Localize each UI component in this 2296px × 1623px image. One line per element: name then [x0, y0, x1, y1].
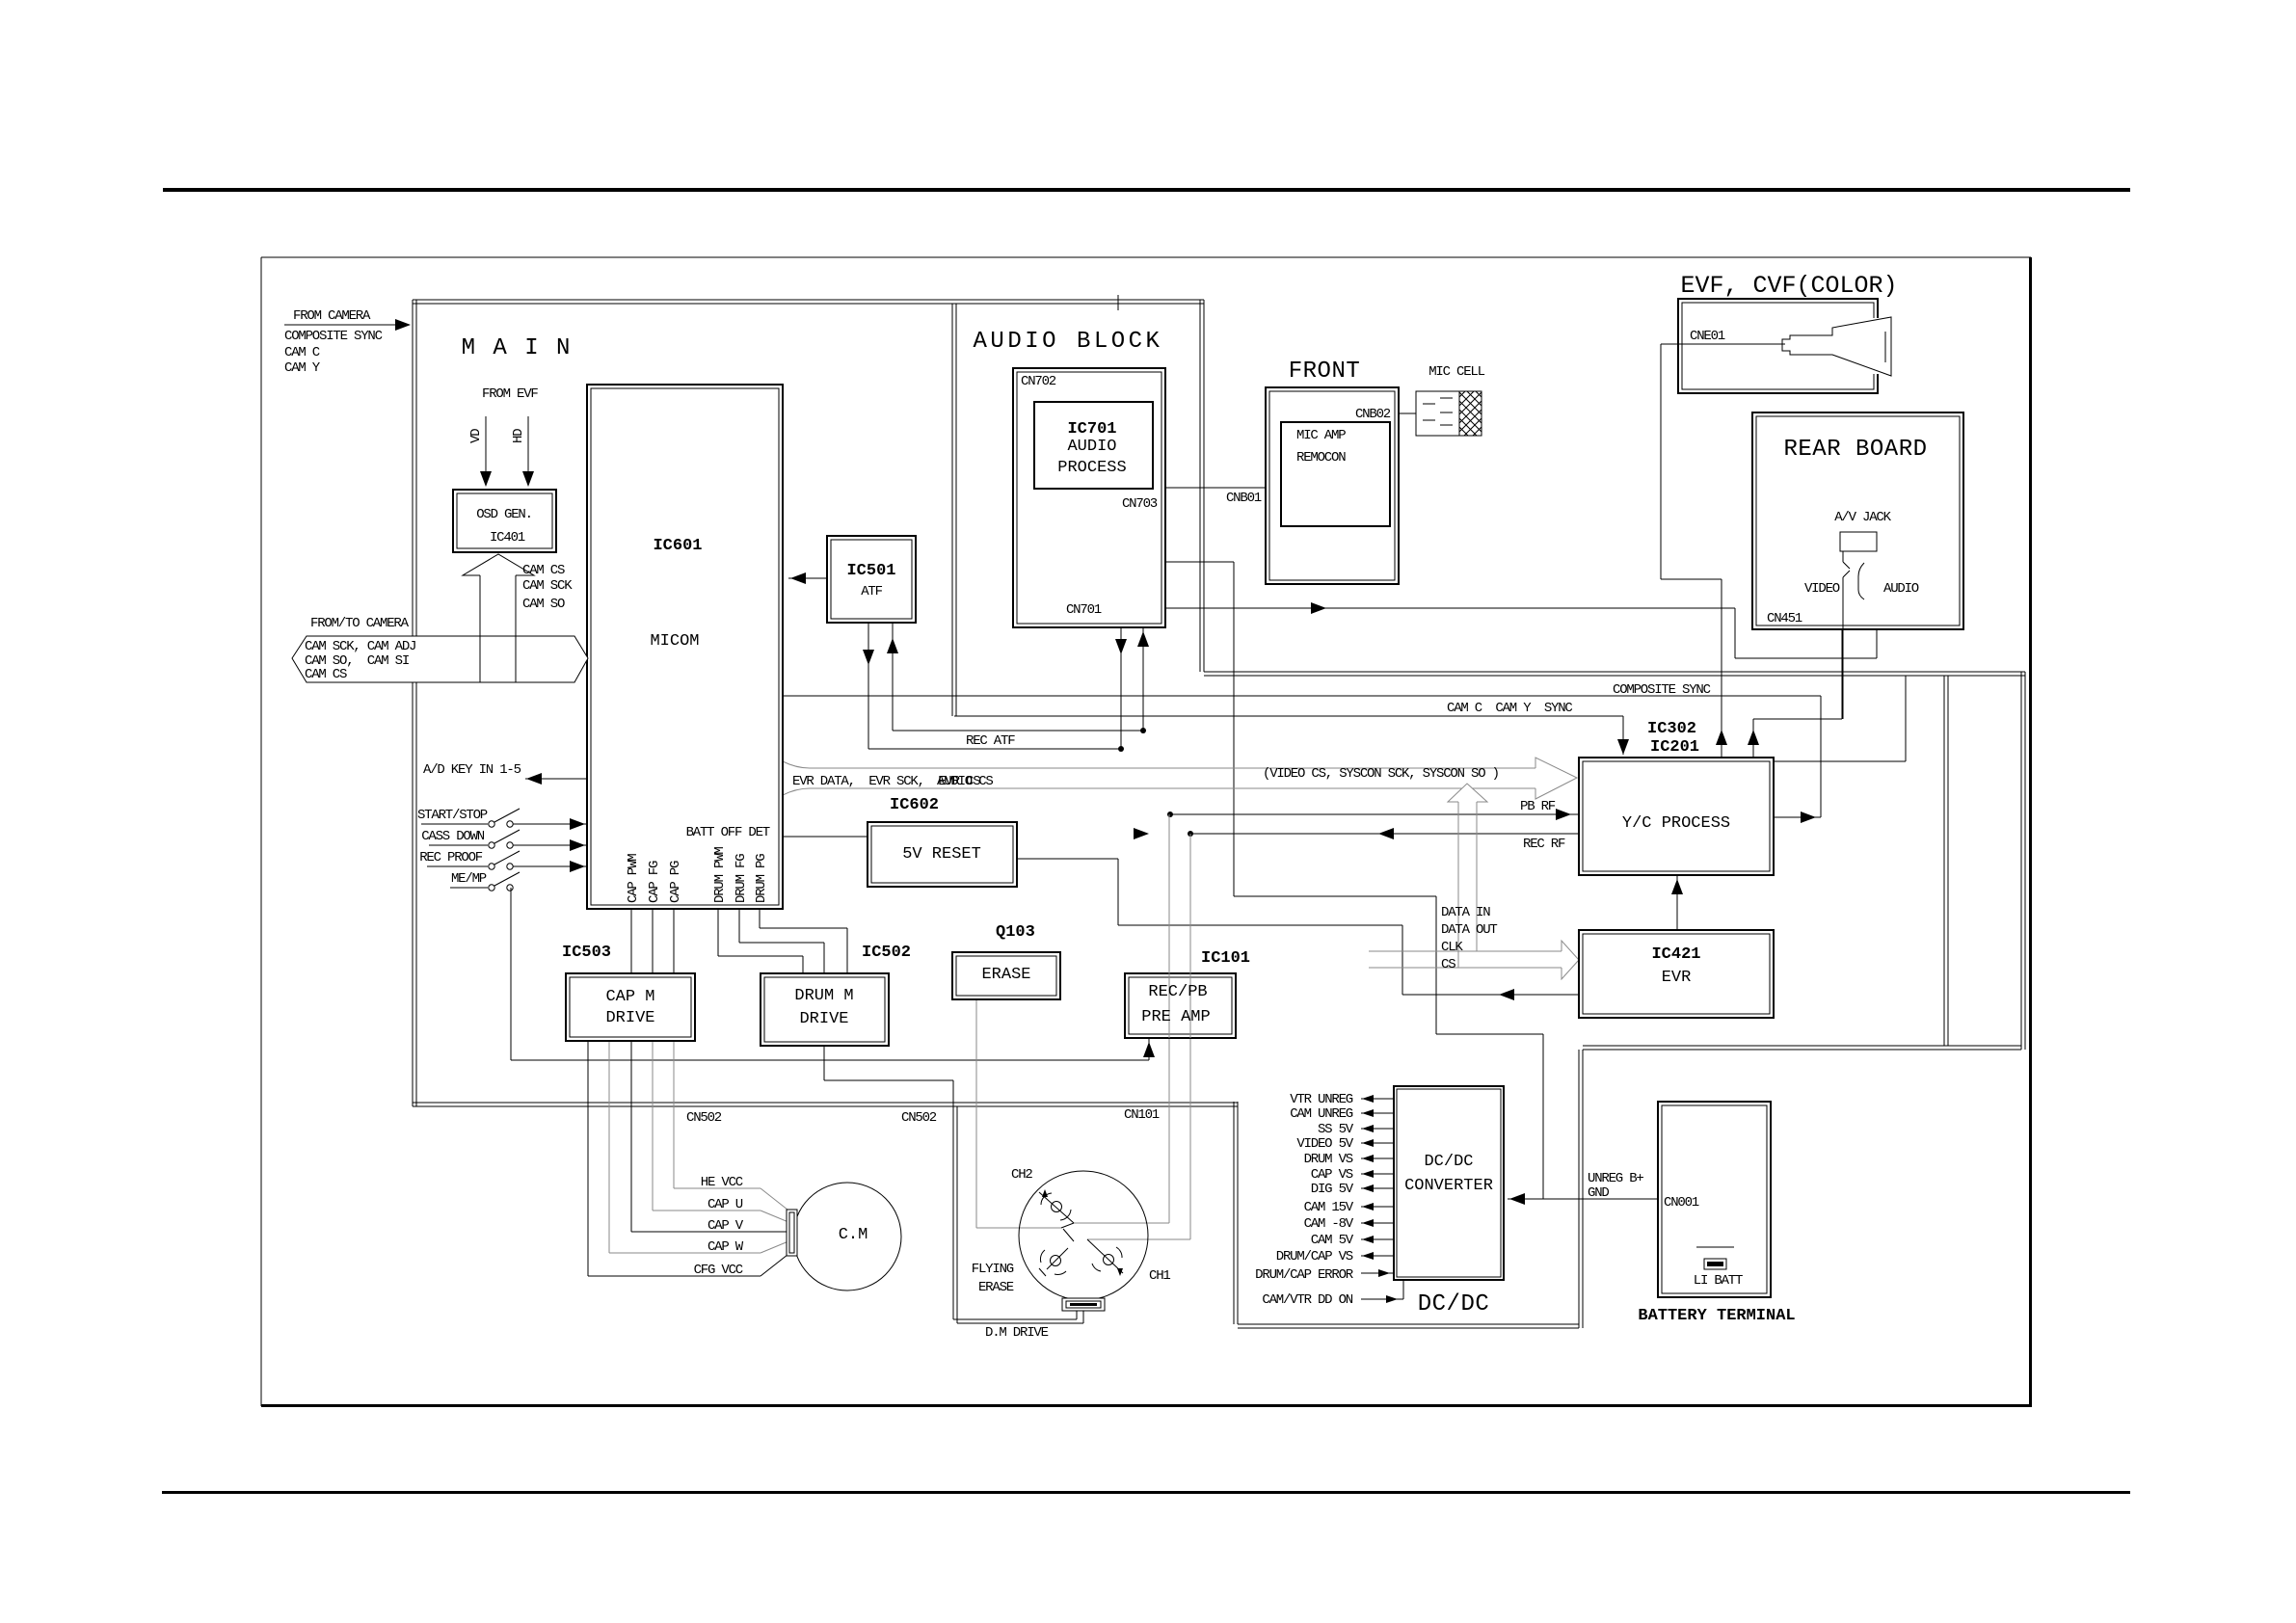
svg-text:CNE01: CNE01 — [1690, 329, 1725, 344]
svg-text:VIDEO 5V: VIDEO 5V — [1296, 1136, 1353, 1152]
svg-text:CN502: CN502 — [901, 1110, 937, 1126]
svg-text:DRUM/CAP VS: DRUM/CAP VS — [1276, 1249, 1353, 1264]
svg-text:CN701: CN701 — [1066, 602, 1102, 618]
svg-text:EVR: EVR — [1662, 969, 1692, 987]
svg-text:CAP W: CAP W — [707, 1239, 744, 1255]
svg-text:CAM CS: CAM CS — [305, 667, 347, 682]
svg-text:ERASE: ERASE — [978, 1280, 1014, 1295]
svg-text:BATT OFF DET: BATT OFF DET — [686, 825, 770, 840]
svg-text:CAM Y: CAM Y — [284, 360, 321, 376]
svg-text:COMPOSITE SYNC: COMPOSITE SYNC — [284, 329, 383, 344]
svg-text:CN101: CN101 — [1124, 1107, 1160, 1123]
svg-text:IC201: IC201 — [1650, 738, 1699, 757]
svg-text:CAM UNREG: CAM UNREG — [1290, 1106, 1353, 1122]
svg-text:IC601: IC601 — [653, 537, 702, 555]
svg-text:SS 5V: SS 5V — [1318, 1122, 1354, 1137]
svg-text:DRUM M: DRUM M — [794, 987, 853, 1005]
svg-text:CAP VS: CAP VS — [1311, 1167, 1353, 1183]
svg-text:CN702: CN702 — [1021, 374, 1056, 389]
svg-text:DATA IN: DATA IN — [1441, 905, 1490, 920]
svg-text:DC/DC: DC/DC — [1418, 1291, 1490, 1317]
svg-text:CAP FG: CAP FG — [647, 861, 662, 903]
svg-text:CAM CS: CAM CS — [522, 563, 565, 578]
svg-text:VD: VD — [468, 429, 484, 443]
svg-text:CAP V: CAP V — [707, 1218, 744, 1234]
svg-text:LI BATT: LI BATT — [1694, 1273, 1743, 1289]
svg-text:CAM SCK, CAM ADJ: CAM SCK, CAM ADJ — [305, 639, 415, 654]
svg-text:PROCESS: PROCESS — [1057, 459, 1126, 477]
svg-text:CAM C CAM Y SYNC: CAM C CAM Y SYNC — [1447, 701, 1572, 716]
svg-text:START/STOP: START/STOP — [417, 808, 488, 823]
svg-text:PB RF: PB RF — [1520, 799, 1556, 814]
svg-text:CAM SCK: CAM SCK — [522, 578, 573, 594]
svg-text:MIC AMP: MIC AMP — [1296, 428, 1346, 443]
svg-text:COMPOSITE SYNC: COMPOSITE SYNC — [1613, 682, 1711, 698]
svg-text:CAM SO: CAM SO — [522, 597, 565, 612]
svg-text:CS: CS — [1441, 957, 1455, 972]
svg-text:VIDEO: VIDEO — [1804, 581, 1840, 597]
svg-text:CFG VCC: CFG VCC — [694, 1263, 743, 1278]
svg-text:PRE AMP: PRE AMP — [1141, 1008, 1210, 1026]
svg-text:MIC CELL: MIC CELL — [1428, 364, 1484, 380]
svg-text:REC ATF: REC ATF — [966, 733, 1015, 749]
svg-text:REC PROOF: REC PROOF — [419, 850, 483, 865]
svg-text:DIG 5V: DIG 5V — [1311, 1182, 1354, 1197]
svg-text:CN451: CN451 — [1767, 611, 1802, 626]
svg-text:UNREG B+: UNREG B+ — [1588, 1171, 1643, 1186]
svg-text:AUDIO CS: AUDIO CS — [937, 774, 993, 789]
svg-text:CNB02: CNB02 — [1355, 407, 1391, 422]
svg-text:CH2: CH2 — [1011, 1167, 1032, 1183]
svg-text:5V RESET: 5V RESET — [902, 845, 981, 864]
svg-text:CLK: CLK — [1441, 940, 1463, 955]
svg-text:REAR BOARD: REAR BOARD — [1783, 437, 1927, 463]
svg-text:CN703: CN703 — [1122, 496, 1158, 512]
svg-text:ATF: ATF — [861, 584, 882, 599]
svg-text:REMOCON: REMOCON — [1296, 450, 1346, 466]
svg-text:CAP PWM: CAP PWM — [626, 854, 641, 903]
svg-text:DRUM/CAP ERROR: DRUM/CAP ERROR — [1255, 1267, 1354, 1283]
svg-text:IC302: IC302 — [1647, 720, 1696, 738]
svg-text:DRUM VS: DRUM VS — [1304, 1152, 1353, 1167]
svg-text:CAP M: CAP M — [605, 988, 654, 1006]
svg-text:CAP PG: CAP PG — [668, 861, 683, 903]
svg-text:REC/PB: REC/PB — [1148, 983, 1207, 1001]
svg-text:BATTERY TERMINAL: BATTERY TERMINAL — [1638, 1307, 1795, 1325]
svg-text:A/D KEY IN 1-5: A/D KEY IN 1-5 — [423, 762, 521, 778]
svg-text:DRUM PWM: DRUM PWM — [712, 847, 728, 903]
svg-text:CN001: CN001 — [1664, 1195, 1699, 1211]
svg-text:C.M: C.M — [839, 1226, 868, 1244]
svg-text:AUDIO BLOCK: AUDIO BLOCK — [974, 329, 1163, 355]
svg-text:CAM 15V: CAM 15V — [1304, 1200, 1354, 1215]
svg-text:AUDIO: AUDIO — [1067, 438, 1116, 456]
svg-text:D.M DRIVE: D.M DRIVE — [985, 1325, 1049, 1341]
svg-text:IC401: IC401 — [490, 530, 525, 545]
svg-text:FROM CAMERA: FROM CAMERA — [293, 308, 371, 324]
svg-text:MICOM: MICOM — [650, 632, 699, 651]
svg-text:Y/C PROCESS: Y/C PROCESS — [1622, 814, 1730, 833]
svg-text:HE VCC: HE VCC — [701, 1175, 743, 1190]
svg-text:CASS DOWN: CASS DOWN — [421, 829, 485, 844]
svg-text:A/V JACK: A/V JACK — [1834, 510, 1891, 525]
svg-text:OSD GEN.: OSD GEN. — [476, 507, 532, 522]
svg-text:DRUM PG: DRUM PG — [754, 854, 769, 903]
svg-text:CAM 5V: CAM 5V — [1311, 1233, 1354, 1248]
svg-text:CAM -8V: CAM -8V — [1304, 1216, 1354, 1232]
svg-text:CAM/VTR DD ON: CAM/VTR DD ON — [1262, 1292, 1352, 1308]
svg-text:EVF, CVF(COLOR): EVF, CVF(COLOR) — [1680, 272, 1897, 300]
svg-text:VTR UNREG: VTR UNREG — [1290, 1092, 1353, 1107]
svg-text:DRIVE: DRIVE — [605, 1009, 654, 1027]
svg-text:DRUM FG: DRUM FG — [734, 854, 749, 903]
svg-text:IC501: IC501 — [846, 562, 895, 580]
svg-text:FRONT: FRONT — [1289, 359, 1361, 385]
svg-text:IC421: IC421 — [1651, 945, 1700, 964]
svg-text:REC RF: REC RF — [1523, 837, 1565, 852]
svg-text:FLYING: FLYING — [972, 1262, 1014, 1277]
svg-text:CAM C: CAM C — [284, 345, 320, 360]
svg-text:ERASE: ERASE — [981, 966, 1030, 984]
svg-text:FROM EVF: FROM EVF — [482, 386, 538, 402]
svg-text:Q103: Q103 — [996, 923, 1035, 942]
svg-text:IC602: IC602 — [890, 796, 939, 814]
svg-text:CAP U: CAP U — [707, 1197, 743, 1212]
svg-text:IC101: IC101 — [1201, 949, 1250, 968]
svg-text:GND: GND — [1588, 1185, 1609, 1201]
svg-text:DATA OUT: DATA OUT — [1441, 922, 1497, 938]
svg-text:CNB01: CNB01 — [1226, 491, 1262, 506]
svg-text:IC503: IC503 — [562, 944, 611, 962]
svg-text:M A I N: M A I N — [462, 335, 573, 361]
svg-text:IC701: IC701 — [1067, 420, 1116, 439]
svg-text:AUDIO: AUDIO — [1883, 581, 1919, 597]
svg-text:CH1: CH1 — [1149, 1268, 1170, 1284]
svg-text:CONVERTER: CONVERTER — [1404, 1177, 1493, 1195]
svg-text:HD: HD — [511, 429, 526, 443]
svg-text:IC502: IC502 — [862, 944, 911, 962]
svg-text:CN502: CN502 — [686, 1110, 722, 1126]
svg-text:DC/DC: DC/DC — [1424, 1153, 1473, 1171]
svg-text:ME/MP: ME/MP — [451, 871, 487, 887]
svg-text:DRIVE: DRIVE — [799, 1010, 848, 1028]
svg-text:(VIDEO CS, SYSCON SCK, SYSCON: (VIDEO CS, SYSCON SCK, SYSCON SO ) — [1263, 766, 1499, 782]
svg-text:FROM/TO CAMERA: FROM/TO CAMERA — [310, 616, 410, 631]
